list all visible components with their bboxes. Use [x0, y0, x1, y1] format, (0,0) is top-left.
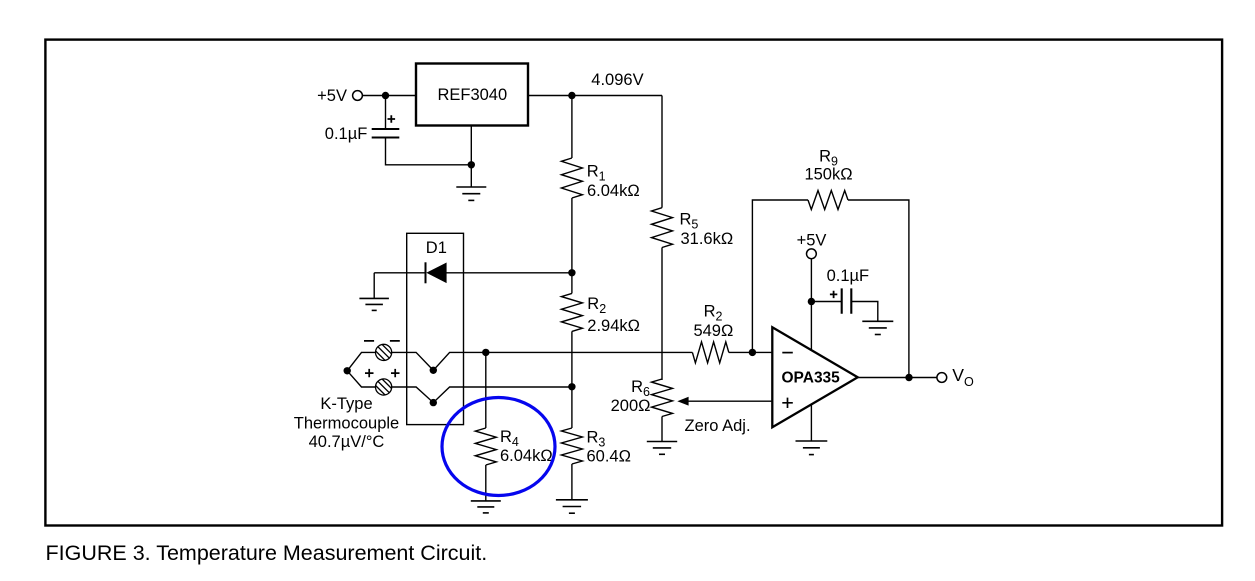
svg-text:31.6kΩ: 31.6kΩ	[681, 230, 734, 248]
svg-text:6.04kΩ: 6.04kΩ	[587, 182, 640, 200]
ground left of D1	[359, 298, 389, 310]
resistor R2 549 zigzag	[692, 342, 728, 363]
ground for C3	[862, 321, 893, 334]
ground below R6	[647, 442, 677, 455]
svg-text:Zero Adj.: Zero Adj.	[685, 417, 751, 435]
junction thermocouple+/R3	[568, 383, 575, 390]
resistor R9 150k zigzag	[808, 191, 848, 210]
wire REF3040 output 4.096V	[528, 95, 662, 97]
wire op-amp output	[858, 377, 938, 379]
resistor R3 60.4 zigzag	[561, 428, 582, 464]
resistor R4 6.04k zigzag	[475, 428, 496, 465]
capacitor C1 plates	[372, 129, 400, 138]
wire thermocouple positive lead (bottom)	[347, 371, 572, 403]
wire C1 bottom lead to ground rail	[386, 138, 472, 165]
thermocouple junction symbol (positive)	[376, 379, 392, 395]
wire C3 left lead	[811, 301, 841, 303]
wire R1 bottom to R2 top	[571, 198, 573, 293]
junction bottom V-dip in block	[430, 399, 437, 406]
junction top V-dip in block	[430, 367, 437, 374]
ground below REF3040	[456, 187, 486, 200]
capacitor C3 plates	[842, 288, 852, 313]
wire 4.096V to R5 top	[661, 96, 663, 208]
wire R9 left lead	[752, 200, 808, 352]
svg-text:R3: R3	[587, 428, 606, 449]
wire diode anode to node	[446, 272, 572, 274]
junction R1/R2/D1	[568, 269, 575, 276]
wire C1 top lead	[385, 96, 387, 129]
R6 wiper arrow to op-amp + input	[687, 400, 772, 402]
terminal +5V op-amp	[807, 249, 817, 259]
svg-text:6.04kΩ: 6.04kΩ	[500, 447, 553, 465]
svg-text:+5V: +5V	[797, 232, 827, 250]
voltage reference U2 REF3040 box	[416, 64, 528, 126]
svg-text:4.096V: 4.096V	[591, 71, 643, 89]
svg-text:FIGURE 3. Temperature Measurem: FIGURE 3. Temperature Measurement Circui…	[46, 541, 488, 565]
ground below R3	[556, 500, 588, 513]
wire thermocouple negative lead (top)	[347, 352, 692, 370]
svg-text:2.94kΩ: 2.94kΩ	[587, 317, 640, 335]
svg-text:K-Type: K-Type	[320, 395, 372, 413]
svg-text:R4: R4	[500, 428, 519, 449]
wire 4.096V to R1 top	[571, 96, 573, 159]
thermocouple plus polarity marks	[365, 369, 400, 377]
wire C3 right lead to ground	[852, 302, 878, 322]
svg-text:R6: R6	[631, 378, 650, 399]
svg-text:OPA335: OPA335	[782, 370, 841, 387]
svg-text:VO: VO	[952, 365, 974, 389]
junction V+/C3	[808, 298, 815, 305]
svg-text:549Ω: 549Ω	[693, 322, 733, 340]
svg-text:R5: R5	[680, 210, 699, 231]
svg-text:D1: D1	[426, 239, 447, 257]
potentiometer R6 200 zigzag	[652, 379, 673, 417]
svg-text:200Ω: 200Ω	[611, 397, 651, 415]
wire REF3040 ground pin	[470, 126, 472, 188]
terminal Vo	[937, 373, 947, 383]
diode D1 symbol	[426, 262, 447, 283]
wire 549 to op-amp inverting input	[729, 351, 773, 353]
wire +5V to REF3040 input	[362, 95, 416, 97]
wire op-amp ground pin	[810, 404, 812, 441]
svg-text:R2: R2	[704, 302, 723, 323]
junction output/R9	[905, 374, 912, 381]
junction REF3040 gnd/C1	[468, 161, 475, 168]
svg-text:150kΩ: 150kΩ	[804, 166, 852, 184]
wire R4 bottom to ground	[485, 465, 487, 501]
thermocouple minus polarity marks	[364, 340, 400, 342]
svg-text:0.1µF: 0.1µF	[827, 267, 870, 285]
wire R6 bottom to ground	[661, 417, 663, 442]
thermocouple junction symbol (negative)	[376, 344, 392, 360]
wire R9 right lead to output	[848, 200, 909, 378]
wire R5 bottom to R6 top	[661, 248, 663, 381]
figure border frame	[45, 40, 1222, 526]
op-amp U1 OPA335 triangle	[772, 327, 857, 427]
junction +5V/C1	[382, 92, 389, 99]
blue highlight circle around R4	[442, 398, 555, 496]
wire R3 bottom to ground	[571, 464, 573, 500]
svg-text:Thermocouple: Thermocouple	[294, 415, 399, 433]
wire R4 top lead	[485, 352, 487, 428]
svg-text:R1: R1	[587, 162, 606, 183]
D1 isothermal block box	[407, 233, 464, 424]
ground below op-amp	[796, 441, 828, 455]
svg-text:40.7µV/°C: 40.7µV/°C	[309, 433, 385, 451]
junction inverting input/R9	[749, 349, 756, 356]
wire +5V to op-amp V+ pin	[810, 258, 812, 349]
wire diode cathode left	[374, 272, 425, 274]
svg-text:R2: R2	[587, 295, 606, 316]
svg-text:0.1µF: 0.1µF	[325, 125, 368, 143]
resistor R2 2.94k zigzag	[561, 293, 582, 331]
wire D1 to ground drop	[373, 273, 375, 299]
svg-text:60.4Ω: 60.4Ω	[587, 447, 631, 465]
terminal +5V	[353, 91, 363, 101]
resistor R5 31.6k zigzag	[652, 208, 673, 248]
svg-text:+5V: +5V	[317, 87, 347, 105]
junction R4 top	[482, 349, 489, 356]
capacitor C3 0.1uF plus sign	[830, 291, 837, 298]
resistor R1 6.04k zigzag	[561, 158, 582, 198]
ground below R4	[471, 501, 501, 513]
junction 4.096V node	[568, 92, 575, 99]
svg-text:REF3040: REF3040	[437, 86, 507, 104]
op-amp non-inverting input plus sign	[782, 398, 793, 408]
junction thermocouple left	[344, 367, 351, 374]
wire R2 bottom to R3 top	[571, 331, 573, 428]
capacitor C1 0.1uF plus sign	[388, 115, 396, 123]
op-amp inverting input minus sign	[782, 352, 793, 354]
